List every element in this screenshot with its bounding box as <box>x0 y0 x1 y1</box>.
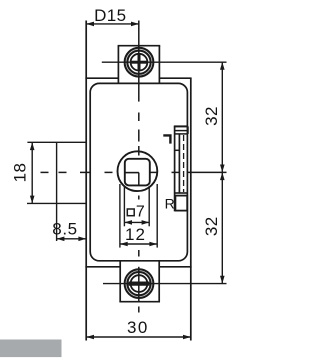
svg-text:18: 18 <box>10 163 29 183</box>
svg-text:32: 32 <box>202 216 221 236</box>
svg-text:7: 7 <box>136 203 145 220</box>
svg-text:12: 12 <box>125 225 146 244</box>
svg-text:8.5: 8.5 <box>52 220 77 239</box>
svg-text:30: 30 <box>127 318 149 337</box>
svg-text:R: R <box>165 196 176 212</box>
svg-text:D15: D15 <box>94 6 126 25</box>
svg-text:32: 32 <box>202 106 221 126</box>
